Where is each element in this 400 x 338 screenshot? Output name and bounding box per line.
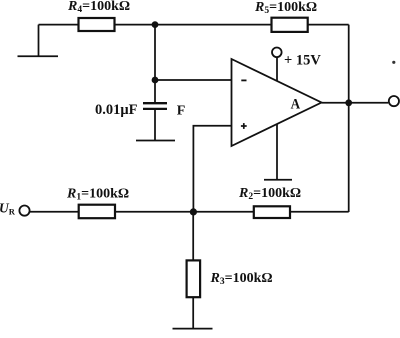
terminal +15V circle — [272, 48, 282, 58]
resistor R5 body — [272, 18, 308, 32]
op-amp minus input symbol — [241, 79, 246, 81]
svg-text:R2=100kΩ: R2=100kΩ — [238, 186, 301, 202]
op-amp plus input symbol — [241, 123, 247, 129]
wire +15V terminal to op-amp top edge — [276, 58, 278, 82]
resistor R2 body — [254, 206, 290, 218]
node F junction dot (top rail) — [152, 21, 159, 28]
svg-text:R4=100kΩ: R4=100kΩ — [67, 0, 130, 15]
wire op-amp output to output terminal — [322, 102, 389, 104]
ground (below capacitor) — [136, 140, 175, 142]
wire R2 to right bus — [291, 211, 349, 213]
svg-text:A: A — [291, 96, 301, 112]
resistor R1 body — [79, 205, 115, 219]
wire vertical from top rail to inverting node — [154, 25, 156, 80]
wire input terminal to R1 — [29, 211, 78, 213]
wire left ground riser — [38, 25, 40, 57]
ground (op-amp negative supply) — [264, 179, 292, 181]
ground (left, near R4) — [18, 55, 59, 57]
wire node B down to R3 — [192, 212, 194, 260]
wire right feedback bus vertical — [348, 25, 350, 212]
svg-text:R5=100kΩ: R5=100kΩ — [254, 0, 317, 16]
wire capacitor bottom plate to ground — [154, 110, 156, 141]
terminal output circle — [389, 96, 399, 106]
wire R4 to node F top — [115, 24, 155, 26]
node B junction dot (bottom rail) — [190, 208, 197, 215]
svg-text:UR: UR — [0, 200, 16, 216]
terminal input UR circle — [19, 206, 29, 216]
resistor R4 body — [79, 18, 115, 31]
wire node B up to op-amp plus input — [193, 126, 231, 212]
node junction dot (inverting input) — [152, 77, 159, 84]
svg-text:+ 15V: + 15V — [284, 52, 321, 68]
wire top rail from left ground riser to R4 — [39, 24, 79, 26]
wire node F top to R5 — [155, 24, 271, 26]
svg-text:0.01μF: 0.01μF — [95, 102, 138, 118]
svg-text:F: F — [177, 104, 186, 119]
wire R3 to bottom ground — [192, 298, 194, 329]
wire op-amp bottom edge to ground — [276, 124, 278, 180]
svg-text:R3=100kΩ: R3=100kΩ — [210, 271, 273, 287]
resistor R3 body — [187, 260, 201, 297]
op-amp U1 triangle — [232, 59, 322, 146]
wire inverting node to op-amp minus input — [155, 79, 232, 81]
wire R1 to node B — [116, 211, 194, 213]
ground (below R3) — [173, 328, 213, 330]
node junction dot (output bus) — [345, 99, 352, 106]
svg-text:R1=100kΩ: R1=100kΩ — [66, 186, 129, 202]
wire node B to R2 — [193, 211, 253, 213]
wire R5 to right bus — [309, 24, 349, 26]
capacitor C (0.01uF) plates — [143, 103, 167, 109]
wire node to capacitor top plate — [154, 80, 156, 102]
ink speck artifact — [392, 61, 395, 64]
